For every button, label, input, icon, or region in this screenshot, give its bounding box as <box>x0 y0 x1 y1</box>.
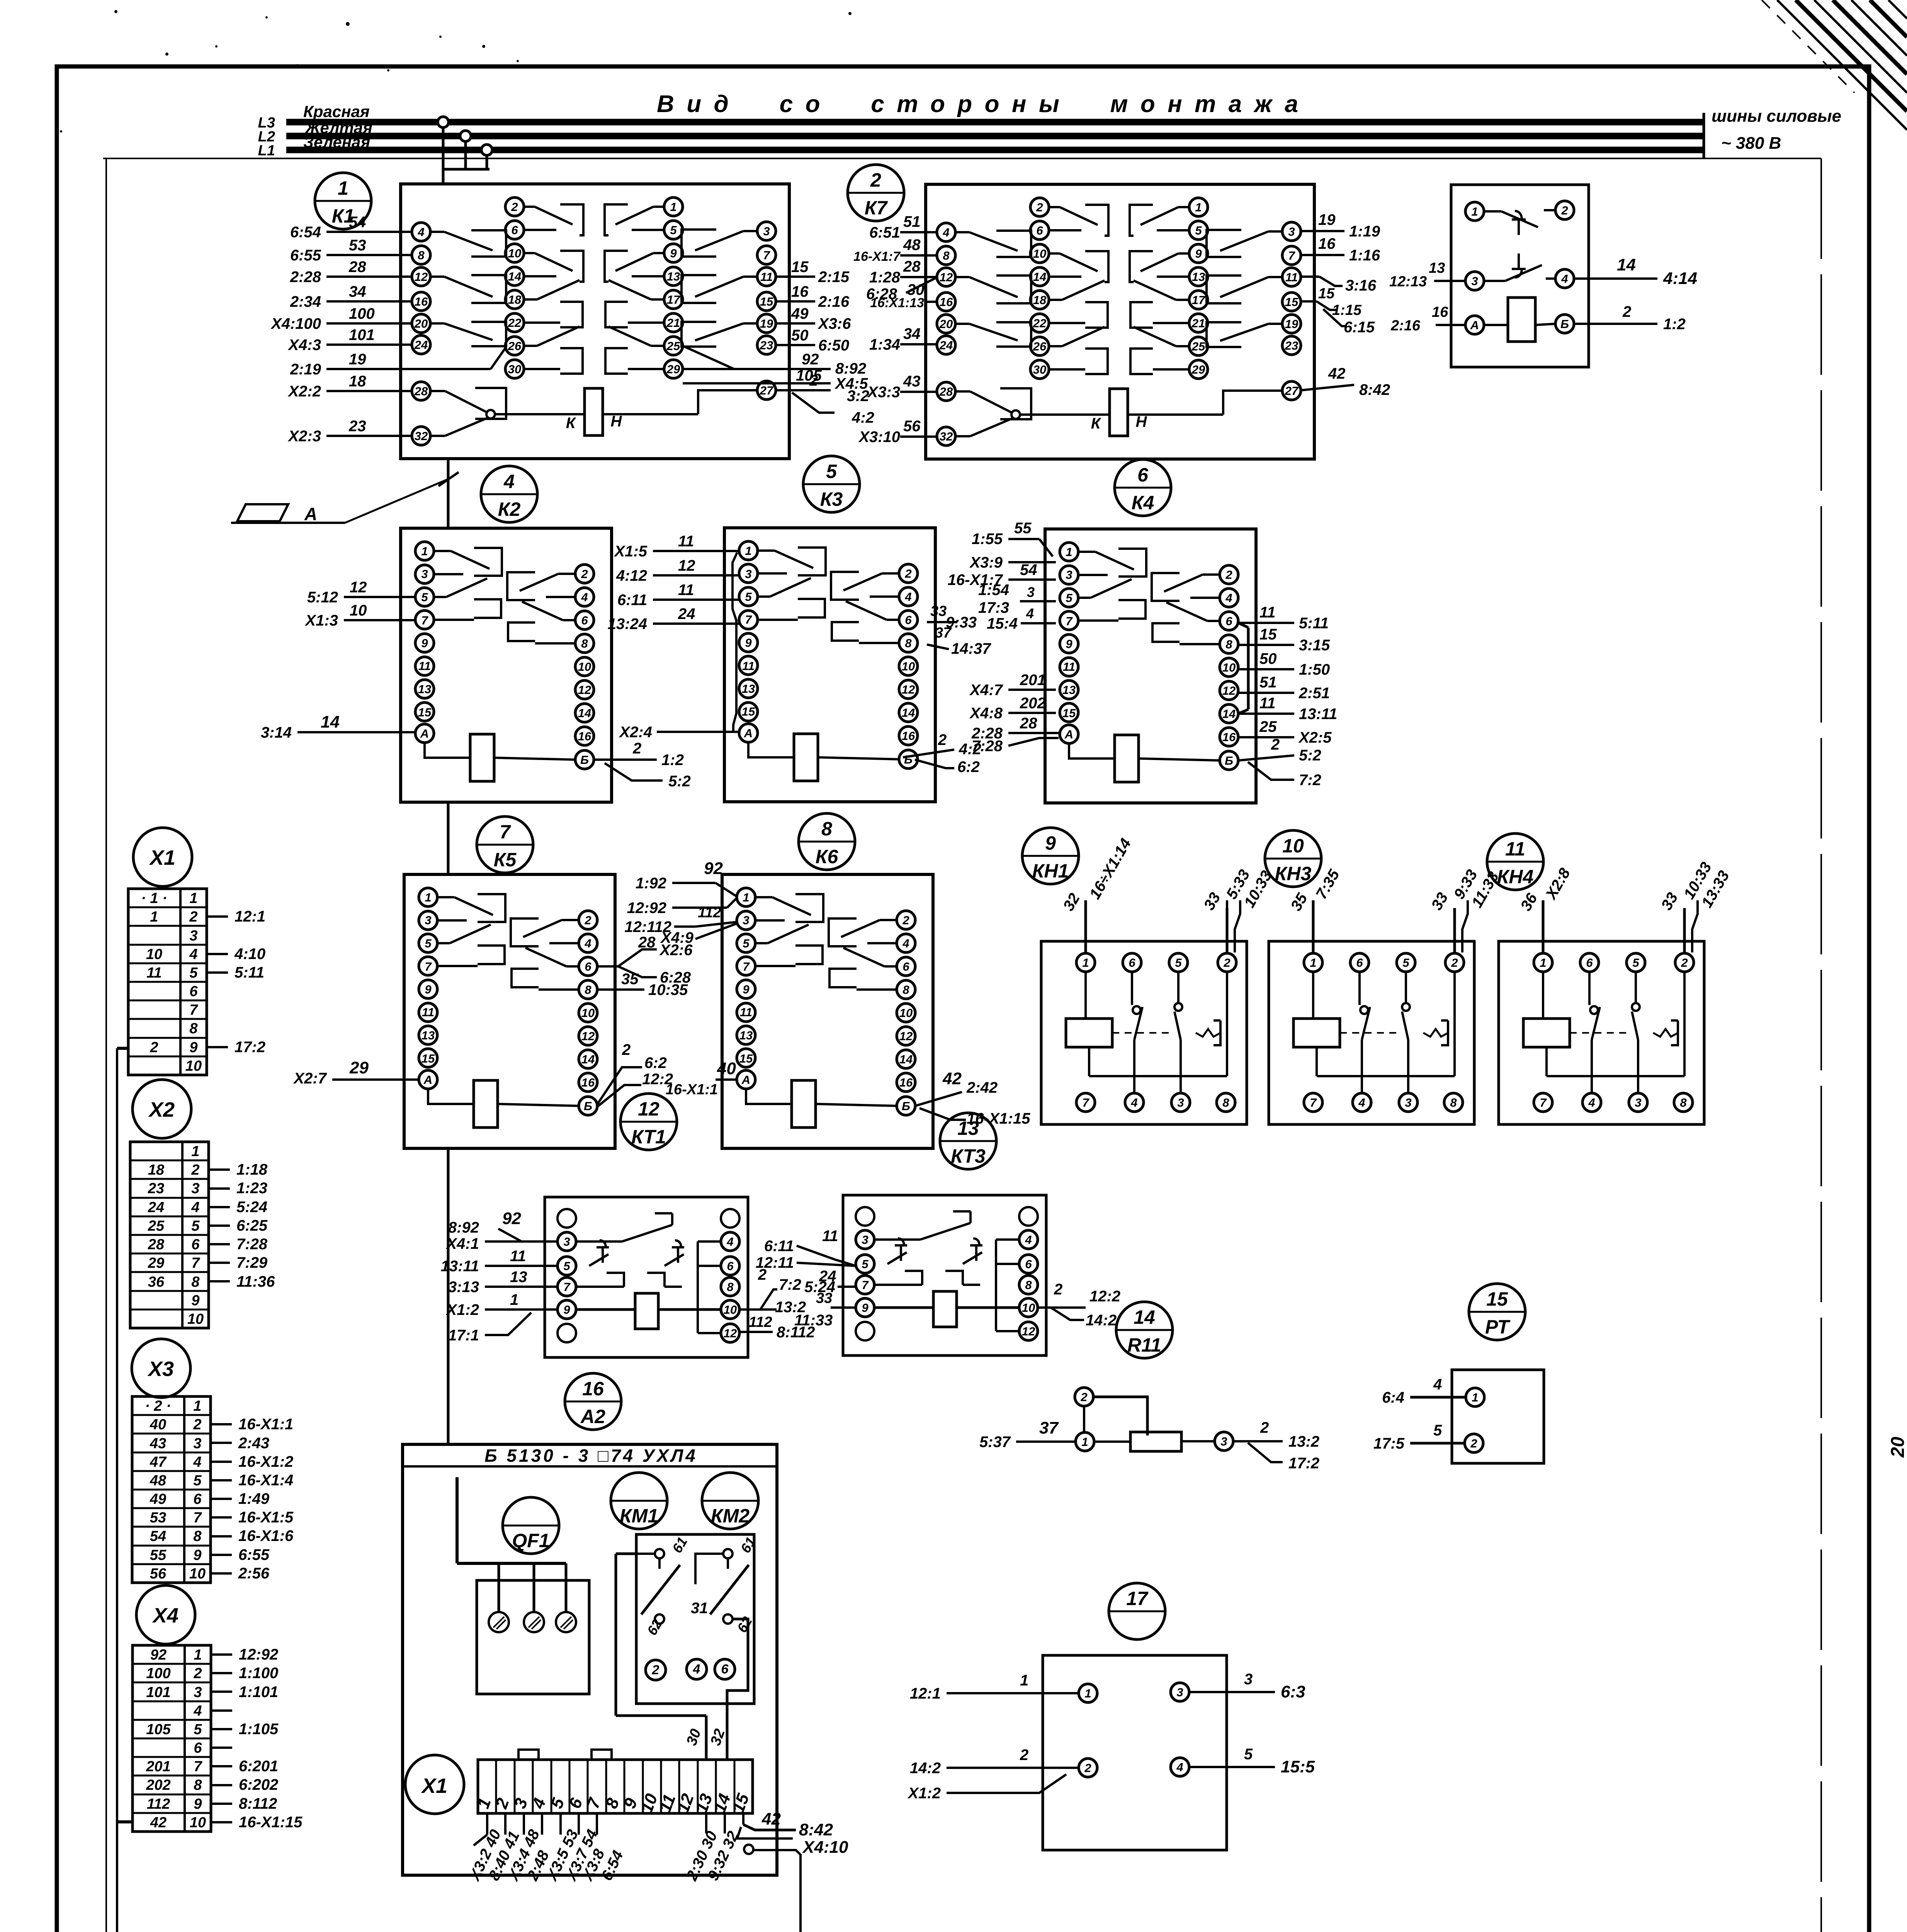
svg-text:1: 1 <box>1084 1687 1091 1700</box>
svg-text:1:55: 1:55 <box>972 531 1003 548</box>
svg-text:1:101: 1:101 <box>239 1684 278 1701</box>
svg-text:24: 24 <box>939 338 953 352</box>
svg-text:X2:5: X2:5 <box>1298 729 1332 746</box>
designator circle 5/K3 <box>803 456 860 512</box>
KT2 left wires <box>1434 280 1465 282</box>
K5 pin B wires 6:2 12:2 <box>597 1067 642 1104</box>
svg-text:X2: X2 <box>148 1098 175 1121</box>
K1 pin27 wire 3:2 4:2 <box>776 389 831 391</box>
svg-text:6:11: 6:11 <box>617 592 647 609</box>
svg-text:1: 1 <box>743 891 749 904</box>
svg-text:X4:8: X4:8 <box>969 705 1003 722</box>
relay K1 (item 1) block <box>401 184 789 459</box>
svg-text:92: 92 <box>502 1209 521 1228</box>
svg-text:4: 4 <box>191 1199 199 1216</box>
svg-text:3: 3 <box>189 928 197 944</box>
svg-text:21: 21 <box>666 316 680 330</box>
svg-text:А2: А2 <box>580 1406 605 1427</box>
K3 internal left bus wire <box>733 553 737 732</box>
svg-text:7: 7 <box>743 960 750 973</box>
svg-text:26: 26 <box>1033 340 1047 353</box>
svg-text:QF1: QF1 <box>512 1530 549 1551</box>
bus tap junction on L1 <box>481 145 492 155</box>
svg-text:1:49: 1:49 <box>238 1490 270 1507</box>
svg-text:5: 5 <box>826 461 837 482</box>
svg-text:12:11: 12:11 <box>756 1254 794 1271</box>
svg-text:14:2: 14:2 <box>1086 1312 1117 1329</box>
svg-text:34: 34 <box>349 283 366 300</box>
svg-text:15: 15 <box>739 1052 753 1065</box>
svg-text:13:11: 13:11 <box>1299 706 1337 723</box>
svg-text:15: 15 <box>1259 626 1277 643</box>
svg-text:16-X1:4: 16-X1:4 <box>238 1472 293 1489</box>
svg-text:1: 1 <box>1020 1672 1028 1689</box>
svg-text:2: 2 <box>902 913 909 927</box>
svg-text:КН1: КН1 <box>1032 860 1069 882</box>
section mark A leader <box>439 472 459 486</box>
svg-text:5: 5 <box>193 1473 202 1489</box>
terminal block X1 <box>133 828 192 886</box>
svg-text:1: 1 <box>745 544 751 558</box>
svg-text:X2:3: X2:3 <box>288 428 321 445</box>
tap drop wires <box>442 128 445 184</box>
svg-text:5: 5 <box>670 223 677 237</box>
KT3 right wires <box>1038 1306 1086 1309</box>
svg-text:24: 24 <box>414 338 428 352</box>
svg-text:48: 48 <box>903 236 921 253</box>
bus tap junction on L2 <box>460 131 471 141</box>
svg-text:20: 20 <box>1888 1437 1907 1458</box>
svg-text:16-X1:5: 16-X1:5 <box>238 1509 294 1526</box>
resistor body <box>1130 1432 1181 1451</box>
svg-text:42: 42 <box>761 1810 781 1828</box>
power bus L3 (red phase) <box>286 119 1704 126</box>
svg-text:11: 11 <box>146 965 161 981</box>
svg-text:1:19: 1:19 <box>1349 223 1380 240</box>
designator circle 8/K6 <box>799 813 855 870</box>
svg-text:1: 1 <box>1540 956 1546 969</box>
svg-text:26: 26 <box>508 339 522 353</box>
R11 wires <box>1094 1440 1130 1443</box>
svg-text:101: 101 <box>146 1684 170 1701</box>
svg-text:14: 14 <box>899 1053 913 1066</box>
svg-text:1: 1 <box>425 891 431 904</box>
svg-text:12: 12 <box>724 1327 737 1340</box>
svg-text:Зеленая: Зеленая <box>303 133 370 151</box>
svg-text:1:15: 1:15 <box>1332 302 1362 318</box>
svg-text:17:3: 17:3 <box>978 599 1009 616</box>
svg-text:10: 10 <box>1222 661 1236 674</box>
svg-text:33: 33 <box>930 603 947 619</box>
svg-text:4: 4 <box>1433 1376 1442 1393</box>
svg-text:6:55: 6:55 <box>290 247 321 264</box>
svg-text:9: 9 <box>670 247 677 260</box>
svg-text:11:33: 11:33 <box>794 1312 833 1329</box>
svg-text:10: 10 <box>581 1006 595 1020</box>
svg-text:3:16: 3:16 <box>1345 277 1377 294</box>
svg-text:11: 11 <box>510 1248 526 1265</box>
svg-text:4:10: 4:10 <box>234 946 265 963</box>
svg-text:15: 15 <box>422 1052 435 1065</box>
svg-text:7: 7 <box>763 248 770 262</box>
svg-text:6: 6 <box>511 223 518 237</box>
svg-text:5: 5 <box>1195 224 1202 237</box>
svg-text:8: 8 <box>581 637 588 650</box>
svg-text:Б 5130 - 3 □74 УХЛ4: Б 5130 - 3 □74 УХЛ4 <box>484 1446 698 1466</box>
svg-text:12:92: 12:92 <box>239 1646 278 1663</box>
svg-text:5: 5 <box>1632 956 1639 969</box>
svg-text:X4:7: X4:7 <box>969 682 1003 699</box>
svg-text:7: 7 <box>1082 1096 1089 1109</box>
svg-text:7: 7 <box>1288 249 1295 262</box>
svg-text:13: 13 <box>739 1029 753 1042</box>
relay KH4 (item 11) block <box>1499 941 1704 1124</box>
svg-text:1: 1 <box>670 200 676 214</box>
svg-text:16: 16 <box>578 730 591 743</box>
svg-text:X1:2: X1:2 <box>908 1785 941 1802</box>
svg-text:48: 48 <box>150 1473 167 1489</box>
svg-text:25: 25 <box>1191 340 1205 353</box>
svg-text:X3:9: X3:9 <box>969 554 1003 571</box>
designator circle 13/KT3 <box>940 1113 996 1169</box>
designator circle 1/K1 <box>315 173 371 229</box>
designator circle 15/PT <box>1469 1284 1525 1340</box>
svg-text:8: 8 <box>194 1777 202 1793</box>
svg-text:6: 6 <box>1225 614 1232 628</box>
svg-text:12:92: 12:92 <box>627 900 666 917</box>
svg-text:3: 3 <box>1066 568 1072 582</box>
svg-text:4:2: 4:2 <box>852 409 874 426</box>
svg-text:2: 2 <box>870 169 881 191</box>
svg-text:1: 1 <box>191 1143 199 1160</box>
svg-text:X2:2: X2:2 <box>288 383 321 400</box>
svg-text:10: 10 <box>190 1815 206 1831</box>
svg-text:6: 6 <box>1137 464 1149 486</box>
KM wiring loop <box>616 1553 636 1555</box>
KT3 left wires <box>797 1246 856 1266</box>
svg-text:16:X1:13: 16:X1:13 <box>870 296 924 310</box>
K2 pin B wire 1:2 5:2 <box>594 759 657 761</box>
svg-text:24: 24 <box>148 1199 164 1216</box>
svg-text:9: 9 <box>194 1796 202 1812</box>
svg-text:23: 23 <box>148 1180 164 1197</box>
svg-text:13: 13 <box>422 1029 435 1042</box>
svg-text:100: 100 <box>146 1665 170 1682</box>
svg-text:16-X1:7: 16-X1:7 <box>853 249 901 264</box>
KT2 pin 1 <box>1465 202 1484 221</box>
svg-text:12: 12 <box>899 1029 913 1043</box>
svg-text:3: 3 <box>862 1233 868 1247</box>
relay KH1 (item 9) block <box>1041 941 1247 1124</box>
PT pin 2 <box>1465 1434 1483 1452</box>
designator circle 4/K2 <box>481 466 537 522</box>
svg-text:8: 8 <box>1025 1278 1032 1292</box>
svg-text:2: 2 <box>581 567 588 581</box>
svg-text:6: 6 <box>1025 1257 1032 1271</box>
svg-text:К7: К7 <box>865 197 888 219</box>
svg-text:3: 3 <box>421 567 428 581</box>
svg-text:7: 7 <box>421 614 428 627</box>
svg-text:2:43: 2:43 <box>238 1435 269 1452</box>
terminal block X4 <box>136 1585 195 1644</box>
svg-text:9: 9 <box>425 983 432 996</box>
svg-text:3: 3 <box>1027 584 1035 600</box>
svg-text:А: А <box>741 1073 750 1087</box>
svg-text:2: 2 <box>193 1665 202 1682</box>
svg-text:33: 33 <box>816 1290 832 1306</box>
svg-text:К6: К6 <box>816 846 839 867</box>
svg-text:2: 2 <box>193 1417 201 1433</box>
svg-text:6:51: 6:51 <box>869 224 900 241</box>
svg-text:28: 28 <box>414 384 428 398</box>
svg-text:8: 8 <box>727 1280 734 1294</box>
svg-text:6:2: 6:2 <box>957 759 980 776</box>
svg-text:53: 53 <box>349 237 366 254</box>
svg-text:2: 2 <box>1036 201 1043 214</box>
svg-text:5: 5 <box>1066 591 1072 605</box>
scan diagonal marks top-right corner <box>1777 0 1907 130</box>
svg-text:13: 13 <box>957 1117 979 1139</box>
svg-text:92: 92 <box>704 859 723 878</box>
K7 right connection wires <box>1301 230 1344 232</box>
svg-text:1: 1 <box>1066 545 1072 559</box>
svg-text:47: 47 <box>150 1454 167 1470</box>
svg-text:4: 4 <box>1026 605 1034 621</box>
svg-text:9: 9 <box>745 636 752 650</box>
svg-text:15: 15 <box>1486 1288 1508 1310</box>
svg-text:К: К <box>566 415 576 432</box>
svg-text:1:100: 1:100 <box>239 1665 278 1682</box>
svg-text:X3:3: X3:3 <box>867 384 901 401</box>
svg-text:X2:7: X2:7 <box>293 1070 327 1087</box>
svg-text:9: 9 <box>563 1303 570 1316</box>
svg-text:25: 25 <box>666 339 680 353</box>
svg-text:5: 5 <box>1433 1422 1442 1439</box>
svg-text:6: 6 <box>903 960 909 973</box>
svg-text:1: 1 <box>421 544 428 558</box>
svg-text:9: 9 <box>191 1293 199 1309</box>
svg-text:8: 8 <box>905 636 912 650</box>
svg-text:6:4: 6:4 <box>1382 1389 1404 1406</box>
svg-text:1:92: 1:92 <box>636 875 666 892</box>
svg-text:12: 12 <box>1022 1325 1035 1338</box>
svg-text:6:50: 6:50 <box>818 337 849 354</box>
svg-text:42: 42 <box>150 1815 167 1831</box>
svg-text:201: 201 <box>146 1759 170 1775</box>
svg-text:5:11: 5:11 <box>1299 615 1329 632</box>
K4 right inner vertical link <box>1238 623 1248 628</box>
svg-text:11: 11 <box>678 582 694 599</box>
svg-text:27: 27 <box>1285 384 1299 398</box>
svg-text:112: 112 <box>698 905 721 921</box>
svg-text:14:37: 14:37 <box>951 640 991 657</box>
svg-text:14: 14 <box>321 713 340 731</box>
svg-text:8: 8 <box>191 1274 200 1290</box>
17 pin 1 <box>1079 1684 1097 1702</box>
wire from bus tap through K1 to A2 (vertical) <box>447 459 450 528</box>
svg-text:24: 24 <box>678 605 695 622</box>
X1 connector label circle <box>405 1755 464 1814</box>
svg-text:7: 7 <box>862 1278 869 1292</box>
K7 left connection wires <box>900 231 937 233</box>
svg-text:КМ2: КМ2 <box>711 1505 750 1527</box>
svg-text:8: 8 <box>943 249 950 262</box>
svg-text:32: 32 <box>940 430 953 443</box>
svg-text:12: 12 <box>581 1029 595 1043</box>
svg-text:2: 2 <box>1681 956 1688 969</box>
svg-text:Красная: Красная <box>303 102 370 121</box>
svg-text:11: 11 <box>1063 660 1075 673</box>
svg-text:1:18: 1:18 <box>236 1161 268 1178</box>
svg-text:9: 9 <box>1066 637 1072 651</box>
svg-text:5: 5 <box>194 1721 202 1738</box>
KH3 top wires <box>1312 900 1315 953</box>
svg-text:36: 36 <box>148 1274 165 1290</box>
svg-text:15: 15 <box>1285 295 1299 309</box>
svg-text:3: 3 <box>191 1180 199 1197</box>
svg-text:2: 2 <box>809 372 818 389</box>
time relay KT3 (item 13) block <box>843 1195 1046 1355</box>
svg-text:3: 3 <box>193 1435 201 1452</box>
svg-text:201: 201 <box>1020 672 1046 689</box>
svg-text:X1:3: X1:3 <box>305 612 338 629</box>
svg-text:25: 25 <box>1259 718 1277 735</box>
KT2 delayed contact 3-4 <box>1512 253 1526 277</box>
svg-text:3: 3 <box>1288 225 1295 238</box>
svg-text:4: 4 <box>584 937 591 950</box>
svg-text:7:28: 7:28 <box>236 1236 268 1253</box>
svg-text:4: 4 <box>193 1703 202 1719</box>
svg-text:7: 7 <box>1310 1096 1317 1109</box>
svg-text:51: 51 <box>1259 674 1277 691</box>
svg-text:10: 10 <box>724 1303 737 1316</box>
svg-text:5: 5 <box>1244 1746 1253 1763</box>
svg-text:35: 35 <box>621 971 639 988</box>
svg-text:2:15: 2:15 <box>818 269 850 286</box>
svg-text:6: 6 <box>581 614 588 627</box>
svg-text:28: 28 <box>638 934 656 951</box>
svg-text:16-X1:1: 16-X1:1 <box>666 1082 718 1098</box>
svg-text:9: 9 <box>189 1039 197 1056</box>
svg-text:1: 1 <box>194 1647 202 1663</box>
svg-text:16: 16 <box>791 283 809 300</box>
block 17 <box>1043 1655 1227 1850</box>
svg-text:3: 3 <box>743 913 749 927</box>
svg-text:17:2: 17:2 <box>1288 1455 1319 1472</box>
svg-text:25: 25 <box>148 1218 165 1234</box>
svg-text:13:2: 13:2 <box>1288 1433 1319 1450</box>
svg-text:Б: Б <box>580 753 589 767</box>
svg-text:12: 12 <box>1222 684 1236 697</box>
svg-text:101: 101 <box>349 327 375 344</box>
svg-text:6:54: 6:54 <box>290 224 321 241</box>
svg-text:23: 23 <box>760 338 773 352</box>
svg-text:3:13: 3:13 <box>448 1279 479 1296</box>
svg-text:А: А <box>423 1073 432 1087</box>
17 pin 3 <box>1171 1683 1189 1701</box>
svg-text:10: 10 <box>508 247 521 260</box>
svg-text:16: 16 <box>1432 304 1448 320</box>
svg-text:X4: X4 <box>152 1604 178 1627</box>
svg-text:8: 8 <box>903 983 909 997</box>
svg-text:12:1: 12:1 <box>235 908 265 925</box>
svg-text:15: 15 <box>1062 706 1076 720</box>
svg-text:19: 19 <box>1318 211 1336 228</box>
svg-text:1: 1 <box>338 177 348 199</box>
svg-text:2: 2 <box>1225 568 1232 582</box>
svg-text:17: 17 <box>667 293 681 306</box>
svg-text:55: 55 <box>150 1547 167 1563</box>
svg-text:16: 16 <box>940 295 953 309</box>
svg-text:37: 37 <box>935 625 952 641</box>
svg-text:~ 380 В: ~ 380 В <box>1721 134 1781 153</box>
K4 left wires <box>1008 538 1039 540</box>
svg-text:2: 2 <box>1260 1419 1269 1436</box>
svg-text:2: 2 <box>1622 303 1631 320</box>
svg-text:29: 29 <box>349 1058 369 1077</box>
K1 left connection wires <box>326 231 412 233</box>
svg-text:X3: X3 <box>147 1357 174 1381</box>
K4 right wires <box>1238 622 1294 624</box>
svg-text:3: 3 <box>1176 1685 1183 1699</box>
svg-text:11: 11 <box>822 1228 838 1245</box>
svg-text:6: 6 <box>191 1236 200 1253</box>
svg-text:40: 40 <box>717 1059 736 1078</box>
QF1 terminals L1 L2 L3 <box>489 1612 509 1632</box>
scan speckles top <box>114 10 117 13</box>
17 pin 4 <box>1171 1758 1189 1776</box>
svg-text:1: 1 <box>193 1398 201 1414</box>
K6 pin B wires 42 2:42 16-X1:15 <box>915 1092 962 1106</box>
A2 title strip <box>403 1465 777 1468</box>
svg-text:4: 4 <box>693 1662 700 1677</box>
svg-text:19: 19 <box>349 351 366 368</box>
svg-text:1: 1 <box>1082 956 1089 969</box>
svg-text:4: 4 <box>1561 272 1568 286</box>
svg-text:X1:5: X1:5 <box>614 543 648 560</box>
wire X4:10 down to N bus <box>799 1855 802 1932</box>
KT2 coil <box>1508 298 1535 342</box>
relay K4 (item 6) block <box>1045 529 1256 803</box>
svg-text:10: 10 <box>185 1058 202 1074</box>
svg-text:6: 6 <box>585 960 591 973</box>
svg-text:1: 1 <box>1471 205 1478 218</box>
X1 strip keys <box>518 1750 539 1760</box>
svg-text:28: 28 <box>903 258 921 275</box>
svg-text:3: 3 <box>1635 1096 1641 1109</box>
svg-text:9: 9 <box>1045 832 1056 854</box>
svg-text:105: 105 <box>146 1721 171 1738</box>
svg-text:8: 8 <box>1450 1096 1457 1109</box>
svg-text:18: 18 <box>1033 293 1047 307</box>
svg-text:18: 18 <box>508 293 522 306</box>
svg-text:11: 11 <box>1259 604 1276 621</box>
svg-text:112: 112 <box>147 1796 170 1812</box>
svg-text:1:2: 1:2 <box>661 752 684 769</box>
svg-text:11: 11 <box>740 1005 752 1019</box>
svg-text:15: 15 <box>742 705 755 718</box>
svg-text:X1: X1 <box>421 1774 447 1798</box>
svg-text:13: 13 <box>1192 270 1205 284</box>
svg-text:34: 34 <box>903 325 921 342</box>
svg-text:13:11: 13:11 <box>441 1258 479 1275</box>
svg-text:9: 9 <box>1195 247 1202 260</box>
svg-text:1: 1 <box>510 1291 518 1308</box>
svg-text:4: 4 <box>1176 1760 1183 1774</box>
svg-text:51: 51 <box>903 213 921 230</box>
svg-text:5: 5 <box>745 590 752 604</box>
svg-text:16: 16 <box>1318 235 1336 252</box>
